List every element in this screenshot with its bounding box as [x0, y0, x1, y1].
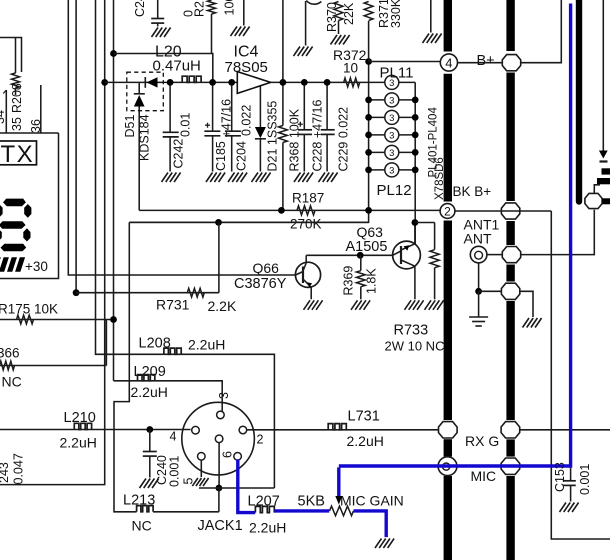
junction dot line D / main 5V rail: [101, 79, 108, 86]
wire R208 lead: [15, 38, 17, 74]
svg-text:2: 2: [257, 433, 264, 447]
svg-text:IC4: IC4: [234, 44, 259, 61]
node 4 circle: [440, 54, 457, 71]
svg-text:L207: L207: [248, 494, 280, 510]
svg-text:R731: R731: [156, 297, 190, 313]
connector MIC octagon bus2: [501, 458, 520, 474]
capacitor C240: [149, 430, 151, 452]
svg-text:A1505: A1505: [346, 239, 388, 255]
blue wire MIC row: [339, 464, 571, 467]
wire Q63 base row: [306, 254, 392, 256]
svg-text:0.001: 0.001: [168, 456, 182, 487]
ground C242: [162, 173, 169, 183]
junction dot line E / L20 branch: [110, 50, 117, 57]
wire lamp left rail: [129, 62, 368, 223]
wire ANT ground row: [479, 290, 502, 292]
ground C2xx: [152, 28, 159, 38]
svg-text:ANT: ANT: [464, 231, 492, 247]
wire ANT right to edge riser: [521, 210, 595, 255]
wire bus line E (x=113.5) to L209: [113, 0, 115, 381]
ground C240: [140, 479, 147, 489]
lamp PL6: [385, 163, 399, 177]
wire L210 row: [0, 429, 191, 431]
ground 100 column: [231, 27, 238, 37]
diode D51b (vertical): [138, 82, 140, 94]
connector B+ octagon: [502, 55, 520, 71]
svg-text:C229 0.022: C229 0.022: [337, 107, 351, 172]
ground jack pin5: [192, 478, 198, 486]
svg-text:R369: R369: [342, 266, 356, 296]
svg-text:R368 100K: R368 100K: [288, 108, 302, 171]
inductor L213: [137, 506, 154, 512]
wire R731 row: [76, 292, 219, 294]
svg-text:10: 10: [343, 61, 358, 76]
connector ground octagon: [501, 283, 519, 299]
connector BK B+ octagon: [501, 203, 519, 219]
svg-text:4: 4: [170, 430, 177, 444]
connector ANT1 octagon: [502, 247, 520, 263]
inductor L209: [138, 375, 155, 381]
wire Q63 emitter to ground: [414, 266, 416, 299]
svg-text:0.022: 0.022: [240, 105, 254, 136]
wire connector pin line: [40, 85, 42, 133]
jack center pin: [215, 435, 223, 443]
svg-text:330K: 330K: [389, 0, 403, 28]
ground R369: [351, 300, 358, 310]
svg-text:C242: C242: [172, 139, 186, 169]
svg-text:TX: TX: [1, 141, 35, 168]
svg-text:36: 36: [29, 119, 43, 133]
svg-text:+30: +30: [25, 259, 48, 274]
svg-text:R208: R208: [10, 83, 24, 113]
connector right edge octagon: [585, 193, 602, 208]
wire jack center pin drop: [218, 443, 220, 488]
svg-text:Q66: Q66: [253, 260, 280, 276]
wire Q66 collector riser: [305, 255, 307, 263]
wire B+ to right riser: [521, 0, 562, 63]
bus bar 3 (right, partial): [576, 0, 582, 202]
thick stub 1 right edge: [602, 168, 610, 174]
wire L209 row to jack pin3: [114, 381, 223, 413]
wire lamp right rail: [414, 82, 416, 245]
lamp PL4 wires: [369, 134, 385, 136]
junction dot center pin net: [216, 485, 223, 492]
ground column x=431: [423, 34, 430, 44]
wire right thin box (down and bottom exit): [551, 211, 610, 539]
wire ANT jack drop: [478, 263, 480, 291]
wire R366 row: [0, 365, 106, 367]
wire D51b to R187 rail: [138, 107, 140, 211]
inductor L731: [328, 424, 346, 430]
connector RX G octagon bus1: [439, 422, 458, 438]
svg-text:2.2uH: 2.2uH: [249, 520, 286, 536]
svg-text:3: 3: [389, 148, 394, 159]
svg-text:2.2uH: 2.2uH: [60, 435, 97, 451]
capacitor C228 (electrolytic): [303, 82, 305, 129]
svg-text:R370: R370: [325, 2, 339, 32]
svg-text:L208: L208: [139, 336, 171, 352]
wire 5V rail (y=82.4): [105, 81, 237, 83]
junction dot C240: [146, 426, 153, 433]
svg-text:R187: R187: [292, 191, 324, 206]
svg-text:2: 2: [444, 205, 451, 219]
capacitor C242: [169, 82, 171, 132]
svg-text:PL12: PL12: [377, 182, 412, 199]
junction dot lamp rail / R187 rail: [365, 207, 372, 214]
svg-text:1.8K: 1.8K: [365, 268, 379, 294]
ground pot: [375, 539, 382, 549]
thick stub 2 right edge: [597, 178, 610, 184]
svg-text:2.2uH: 2.2uH: [347, 433, 384, 449]
lamp PL4: [385, 128, 399, 142]
resistor R208 (vertical, cut at left edge): [12, 73, 20, 88]
svg-text:100: 100: [223, 0, 237, 16]
svg-text:6: 6: [221, 451, 235, 458]
resistor R366: [0, 361, 15, 370]
svg-text:5KB: 5KB: [298, 494, 325, 510]
svg-text:R733: R733: [394, 323, 429, 339]
svg-text:MIC GAIN: MIC GAIN: [340, 493, 404, 509]
display module box: [0, 133, 59, 279]
jack pin 5: [198, 453, 206, 461]
svg-text:PL11: PL11: [380, 65, 414, 82]
transistor Q66: [295, 262, 320, 287]
inductor L208: [164, 348, 181, 354]
wire bus line C (x=95.5) to L208: [96, 0, 164, 354]
junction dot Q63 top: [412, 219, 419, 226]
svg-text:R175 10K: R175 10K: [0, 302, 58, 317]
svg-text:C3876Y: C3876Y: [234, 276, 287, 292]
lamp PL5 wires: [369, 151, 385, 153]
svg-text:L731: L731: [348, 409, 380, 425]
junction dot C229: [324, 79, 331, 86]
ground C185: [206, 173, 213, 183]
wire ground column x=431: [430, 0, 432, 33]
svg-text:Q63: Q63: [357, 224, 384, 240]
transistor Q63: [393, 241, 421, 269]
wire node4 to B+ connector: [458, 62, 503, 64]
ground R733: [425, 300, 432, 310]
seven-segment digit 8: [3, 199, 26, 207]
wire jack pin5 to ground: [200, 460, 202, 477]
ground C229: [319, 173, 326, 183]
ground Q3xx emitter: [294, 47, 301, 57]
svg-text:4: 4: [445, 55, 452, 70]
TX indicator box: [0, 141, 37, 165]
resistor R372: [344, 78, 360, 87]
wire left drop from bias rail (jog to L213): [114, 222, 137, 511]
wire Q63 collector top: [414, 223, 416, 244]
capacitor C185 (electrolytic): [212, 82, 214, 131]
capacitor C204: [231, 82, 233, 131]
bus bar 1 segments: [444, 0, 452, 52]
junction dot bias / R731 riser: [215, 219, 222, 226]
wire L208 row to drop: [164, 354, 275, 488]
blue wire jack pin6 drop: [238, 460, 255, 513]
svg-text:2.2uH: 2.2uH: [188, 337, 225, 353]
wire RX G right: [520, 429, 610, 431]
resistor R2xx (cut at top): [208, 0, 216, 14]
blue wire L207 to pot: [274, 509, 329, 512]
wire right edge connector link: [594, 185, 600, 193]
wire R175 row: [0, 319, 114, 321]
ground C228: [294, 173, 301, 183]
diode D21: [259, 87, 261, 128]
inductor L207: [255, 506, 274, 512]
wire bus line B (x=76) to R731: [75, 0, 77, 293]
wire ANT earth stem: [478, 291, 480, 316]
junction dot R369: [357, 252, 364, 259]
svg-text:22K: 22K: [342, 2, 356, 25]
capacitor C2xx (cut at top): [157, 0, 159, 19]
lamp PL3: [385, 110, 399, 124]
inductor L210: [74, 423, 91, 429]
lamp PL1 wires: [369, 81, 385, 83]
svg-text:3: 3: [217, 392, 231, 399]
wire stub 100 column: [243, 0, 245, 26]
wire center pin net horizontal: [199, 487, 274, 489]
wire right edge thin vertical: [602, 0, 604, 151]
junction dot line B / R731 wire: [73, 289, 80, 296]
antenna jack circle: [470, 246, 487, 263]
svg-text:C204: C204: [235, 141, 249, 171]
svg-text:RX G: RX G: [465, 433, 499, 449]
svg-text:2.2K: 2.2K: [208, 298, 237, 314]
ground (slash) right of octagon: [523, 318, 530, 328]
bus bar 2 segments: [506, 0, 514, 51]
wire R368 column (IC4 out to R187 rail): [282, 0, 284, 126]
wire ANT row: [487, 254, 502, 256]
wire L20 upper link: [114, 54, 213, 83]
svg-text:D51: D51: [123, 115, 137, 138]
svg-text:R2: R2: [193, 1, 207, 17]
wire bias rail y=222.4: [129, 221, 368, 223]
resistor R187: [297, 206, 315, 215]
svg-text:C228 +47/16: C228 +47/16: [311, 100, 325, 172]
wire small pin stub: [5, 90, 7, 133]
svg-text:JACK1: JACK1: [198, 518, 243, 534]
junction dot C204: [228, 79, 235, 86]
svg-text:KDS184: KDS184: [138, 114, 152, 161]
svg-text:NC: NC: [132, 518, 152, 534]
jack pin 3: [217, 411, 225, 419]
resistor R371 (vertical): [364, 2, 373, 21]
svg-text:3: 3: [389, 165, 394, 176]
jack JACK1 body circle: [182, 402, 255, 475]
ground Q66: [304, 300, 311, 310]
wire IC4 output rail: [271, 81, 369, 83]
svg-text:35: 35: [10, 117, 24, 131]
resistor R175: [17, 315, 34, 324]
svg-text:366: 366: [0, 346, 20, 361]
wire pin2 to L731 row: [247, 429, 439, 431]
svg-text:0.001: 0.001: [578, 464, 592, 495]
wire R731 riser: [218, 222, 220, 292]
wire R366 riser: [105, 320, 107, 366]
svg-text:34: 34: [0, 110, 7, 124]
blue wire pot wiper riser: [337, 467, 340, 497]
jack pin 2: [239, 426, 247, 434]
arrow symbol right edge: [599, 151, 608, 159]
junction dot C228: [301, 79, 308, 86]
svg-text:C185: C185: [214, 141, 228, 171]
capacitor C229: [326, 82, 328, 129]
transistor Q3xx (cut at top edge): [306, 1, 321, 5]
pot wiper arrowhead: [335, 496, 342, 505]
lamp PL2: [385, 93, 399, 107]
wire L213 riser: [218, 488, 220, 512]
wire bus line A (x=68) to Q66 base: [68, 0, 295, 275]
svg-text:C24: C24: [133, 0, 147, 17]
wire Q66 emitter to ground: [310, 287, 312, 299]
junction dot lamp rail top: [365, 58, 372, 65]
svg-text:MIC: MIC: [471, 468, 497, 484]
svg-text:NC: NC: [2, 374, 22, 390]
svg-text:2.2uH: 2.2uH: [131, 384, 168, 400]
svg-text:2W 10 NC: 2W 10 NC: [385, 339, 445, 354]
junction dot R175 / line E: [110, 316, 117, 323]
svg-text:BK B+: BK B+: [453, 184, 492, 199]
lamp PL2 wires: [369, 99, 385, 101]
blue wire right riser: [569, 4, 572, 468]
capacitor C153: [570, 468, 572, 481]
svg-text:B+: B+: [477, 53, 495, 69]
ground C204: [228, 173, 235, 183]
ground (earth) ANT: [469, 316, 488, 318]
ground R370: [331, 35, 338, 45]
connector box R208 (top-left): [0, 38, 22, 73]
lamp PL1: [385, 75, 399, 89]
ground D21: [252, 173, 259, 183]
op-amp style regulator IC4 triangle: [237, 72, 270, 94]
jack pin 4: [192, 426, 200, 434]
resistor R370 (vertical): [334, 2, 343, 21]
svg-text:3: 3: [389, 130, 394, 141]
svg-text:78S05: 78S05: [225, 59, 268, 76]
resistor R368 (vertical): [279, 126, 288, 143]
jack pin 6: [234, 453, 242, 461]
lamp PL5: [385, 145, 399, 159]
wire R187 rail (BK B+): [139, 209, 440, 211]
blue wire pot right to ground: [354, 511, 387, 537]
connector MIC circle bus1: [438, 457, 457, 476]
junction dot C242: [167, 79, 174, 86]
resistor R731: [187, 288, 204, 297]
svg-text:D21 1SS355: D21 1SS355: [266, 101, 280, 172]
wire bus line D (x=104.7) down to left exit: [0, 0, 105, 485]
ground Q63: [405, 300, 412, 310]
svg-text:270K: 270K: [290, 217, 322, 232]
svg-text:C153: C153: [553, 462, 567, 492]
dashed box D51: [127, 72, 164, 111]
junction dot R368 top: [280, 79, 287, 86]
junction dot R368 bottom: [278, 207, 285, 214]
wire octagon to slashed ground: [520, 291, 533, 317]
wire B+ from R371 to node 4: [369, 61, 441, 63]
potentiometer 5KB MIC GAIN: [330, 506, 354, 516]
node 2 circle: [440, 204, 455, 219]
lamp PL6 wires: [369, 169, 385, 171]
svg-text:0.047: 0.047: [12, 453, 26, 484]
svg-text:243: 243: [0, 462, 11, 483]
junction dot ANT ground: [475, 288, 482, 295]
signal meter bars: [0, 257, 1, 271]
diode D51a (on rail): [144, 77, 146, 88]
ground C153: [560, 503, 567, 513]
svg-text:3: 3: [389, 113, 394, 124]
resistor R733 (vertical): [434, 223, 436, 250]
resistor R369 (vertical): [360, 255, 362, 270]
lamp PL3 wires: [369, 116, 385, 118]
svg-text:3: 3: [389, 95, 394, 106]
inductor L20: [182, 76, 201, 82]
connector RX G octagon bus2: [501, 422, 520, 438]
wire Q63 top to R733: [415, 222, 435, 224]
thick stub right of octagon: [602, 198, 610, 204]
svg-text:0.01: 0.01: [179, 113, 193, 137]
wire BK B+ to right vertical: [455, 210, 551, 212]
junction dot C185 / riser: [209, 79, 216, 86]
